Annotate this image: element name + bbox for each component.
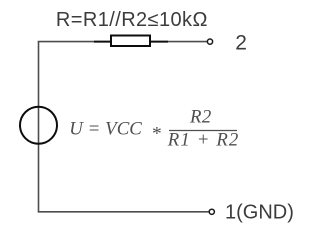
- wire: top horizontal wire from resistor right lead to terminal 2: [168, 41, 207, 43]
- equation fraction bar: [169, 130, 237, 132]
- svg-text:R2: R2: [189, 107, 211, 128]
- wire: top horizontal wire from corner to resistor left lead: [38, 41, 94, 43]
- terminal node 2 (open circle): [207, 39, 212, 44]
- resistor R (box symbol with black leads): [94, 36, 168, 47]
- svg-text:1(GND): 1(GND): [225, 201, 294, 223]
- svg-text:R1 + R2: R1 + R2: [167, 130, 239, 151]
- svg-text:U = VCC: U = VCC: [69, 119, 142, 140]
- svg-text:R=R1//R2≤10kΩ: R=R1//R2≤10kΩ: [56, 9, 208, 31]
- terminal node 1 GND (open circle): [209, 209, 214, 214]
- wire: bottom horizontal wire to terminal 1: [38, 211, 209, 213]
- wire: left vertical wire: [38, 42, 40, 212]
- voltage source U (circle): [20, 107, 57, 144]
- svg-text:2: 2: [235, 32, 247, 55]
- svg-text:*: *: [151, 124, 161, 145]
